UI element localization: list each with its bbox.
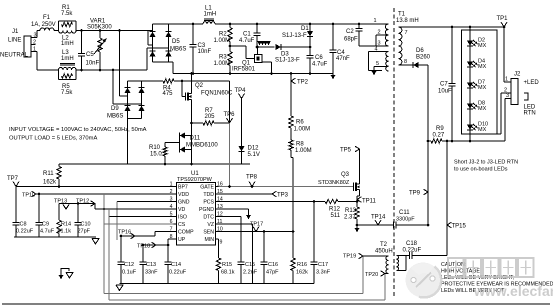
resistor R15 <box>216 258 234 284</box>
inductor L2 <box>59 31 77 48</box>
wire route B <box>109 209 385 300</box>
transformer T2 secondary <box>397 256 410 271</box>
svg-text:D5: D5 <box>172 39 180 45</box>
note input voltage <box>9 127 147 142</box>
svg-text:13.8 mH: 13.8 mH <box>396 18 419 24</box>
svg-text:0.27: 0.27 <box>433 133 445 139</box>
wire CS row <box>104 223 174 225</box>
note short J3 <box>454 160 518 173</box>
svg-text:VZ: VZ <box>207 222 214 228</box>
sense rail with R9 <box>428 126 505 143</box>
wire J2 pin3 <box>505 93 511 141</box>
svg-text:MB6S: MB6S <box>107 114 123 120</box>
svg-text:GND: GND <box>178 200 190 206</box>
capacitor C18 <box>403 241 448 259</box>
wire fuse to L2 <box>54 30 59 32</box>
testpoint TP16 <box>118 230 135 239</box>
svg-text:DTC: DTC <box>203 215 214 221</box>
svg-text:LEDs WILL BE VERY BRIGHT,: LEDs WILL BE VERY BRIGHT, <box>441 275 514 281</box>
transformer T1 core dashed line <box>393 8 395 296</box>
svg-text:R3: R3 <box>219 55 227 61</box>
svg-text:5.1V: 5.1V <box>248 152 260 158</box>
series diodes <box>257 41 271 46</box>
svg-text:R15: R15 <box>222 262 232 268</box>
svg-text:TPS92070PW: TPS92070PW <box>177 177 213 183</box>
svg-text:10nF: 10nF <box>86 61 100 67</box>
LED D8 <box>467 101 487 113</box>
svg-text:R8: R8 <box>296 142 304 148</box>
diode D3 <box>256 44 310 64</box>
svg-text:1mH: 1mH <box>204 12 217 18</box>
svg-text:Q2: Q2 <box>195 83 204 89</box>
wire GND row <box>117 202 174 241</box>
svg-text:TP2: TP2 <box>297 80 309 86</box>
svg-text:TP13: TP13 <box>54 199 67 205</box>
svg-text:PCS: PCS <box>203 200 214 206</box>
svg-text:1.00M: 1.00M <box>214 61 231 67</box>
svg-text:1: 1 <box>505 77 508 83</box>
svg-text:PGND: PGND <box>199 207 214 213</box>
svg-text:CS: CS <box>178 222 186 228</box>
wire J2 pin1 <box>504 27 511 83</box>
svg-text:R9: R9 <box>436 126 444 132</box>
svg-text:51.1k: 51.1k <box>58 229 72 235</box>
svg-text:4.7uF: 4.7uF <box>239 38 255 44</box>
svg-text:B260: B260 <box>416 55 431 61</box>
svg-text:FQN1N60C: FQN1N60C <box>201 91 233 97</box>
svg-text:to use on-board LEDs: to use on-board LEDs <box>454 167 508 173</box>
svg-text:10nF: 10nF <box>198 49 212 55</box>
testpoint TP19 <box>343 253 363 259</box>
svg-text:TP15: TP15 <box>452 224 467 230</box>
svg-text:ISO: ISO <box>178 215 187 221</box>
LED D10 <box>467 122 488 134</box>
svg-text:162k: 162k <box>296 270 308 276</box>
testpoint TP11 <box>357 197 377 205</box>
ground tie symbol <box>59 269 73 280</box>
svg-text:1mH: 1mH <box>61 41 74 47</box>
svg-text:R13: R13 <box>345 208 357 214</box>
capacitor C4 <box>330 23 351 80</box>
svg-text:TP3: TP3 <box>277 193 289 199</box>
resistor R4 <box>163 79 175 97</box>
wire VD row <box>59 202 174 210</box>
svg-text:475: 475 <box>163 91 174 97</box>
svg-text:TP7: TP7 <box>7 176 19 182</box>
svg-text:NEUTRAL: NEUTRAL <box>0 53 29 59</box>
resistor R14 <box>57 204 71 238</box>
svg-text:68.1k: 68.1k <box>221 270 235 276</box>
capacitor C13 <box>140 245 159 284</box>
svg-text:TP8: TP8 <box>246 175 258 181</box>
LED D4 <box>467 59 487 71</box>
svg-text:2.37: 2.37 <box>344 215 356 221</box>
capacitor C9 <box>36 194 55 237</box>
svg-text:C6: C6 <box>315 55 323 61</box>
connector J2 <box>511 72 521 105</box>
svg-text:S05K300: S05K300 <box>87 25 112 31</box>
testpoint TP20 <box>365 271 385 278</box>
svg-text:R12: R12 <box>329 207 341 213</box>
capacitor C12 <box>118 236 137 284</box>
svg-text:68pF: 68pF <box>344 37 358 43</box>
wire TP15 branch <box>447 141 467 256</box>
capacitor C7 <box>438 26 456 143</box>
svg-text:MX: MX <box>478 106 487 112</box>
svg-text:R16: R16 <box>297 262 307 268</box>
wire Q1 gate divider <box>229 45 250 59</box>
svg-text:D1: D1 <box>301 26 309 32</box>
T1 pin4 wire <box>369 47 389 71</box>
svg-text:S1J-13-F: S1J-13-F <box>275 58 300 64</box>
svg-text:1.00M: 1.00M <box>294 127 311 133</box>
resistor R6 <box>289 116 310 140</box>
svg-text:3300pF: 3300pF <box>396 217 415 223</box>
wire AC2 into D5 <box>112 48 169 71</box>
svg-text:TP16: TP16 <box>118 230 131 236</box>
svg-text:511: 511 <box>331 213 341 219</box>
varistor VAR1 <box>87 19 112 72</box>
svg-text:F1: F1 <box>43 15 51 21</box>
svg-text:R11: R11 <box>43 171 54 177</box>
svg-text:C11: C11 <box>399 210 410 216</box>
svg-text:D9: D9 <box>111 106 119 112</box>
T1 pin2 wire <box>376 30 389 47</box>
capacitor C6 <box>307 47 328 75</box>
T1 pin1 <box>374 18 377 24</box>
svg-text:450uH: 450uH <box>375 249 393 255</box>
svg-text:4: 4 <box>375 47 378 53</box>
capacitor C3 <box>190 23 212 75</box>
testpoint TP12 <box>76 199 95 207</box>
svg-text:C5: C5 <box>86 52 94 58</box>
testpoint TP14 <box>371 215 386 226</box>
LED D7 <box>467 80 487 92</box>
capacitor C5 <box>78 29 100 71</box>
wire COMP to TP16 <box>120 232 174 238</box>
svg-text:8: 8 <box>404 59 407 65</box>
svg-text:TP4: TP4 <box>235 88 247 94</box>
wire analog ground rail <box>14 237 99 244</box>
wire DTC to C15 <box>219 217 242 263</box>
svg-text:J1: J1 <box>12 29 19 35</box>
resistor R12 <box>325 199 357 219</box>
svg-text:S1J-13-F: S1J-13-F <box>282 33 307 39</box>
testpoint TP9 <box>409 189 428 196</box>
resistor R5 <box>59 70 77 96</box>
svg-text:SEN: SEN <box>203 230 214 236</box>
capacitor C15 <box>238 262 258 284</box>
svg-text:D6: D6 <box>416 48 424 54</box>
svg-text:GATE: GATE <box>200 185 214 191</box>
svg-text:MX: MX <box>478 43 487 49</box>
wire led string return <box>497 93 508 134</box>
led string wire <box>469 26 472 143</box>
wire SEN row <box>219 230 295 233</box>
wire Q2 source <box>190 100 193 125</box>
wire BP7 to TP7 <box>16 185 174 188</box>
op-amp U1 controller TPS92070PW <box>170 171 223 246</box>
svg-text:R6: R6 <box>296 120 304 126</box>
capacitor C2 <box>344 23 363 46</box>
wire J1 pin3 to fuse <box>31 31 40 38</box>
svg-text:4.7uF: 4.7uF <box>40 229 55 235</box>
resistor R8 <box>289 140 312 158</box>
svg-text:MIN: MIN <box>204 237 214 243</box>
transformer T2 primary <box>363 242 393 274</box>
svg-text:R2: R2 <box>219 32 227 38</box>
testpoint TP4 <box>235 88 247 99</box>
caution note <box>441 262 553 294</box>
svg-text:33nF: 33nF <box>145 270 158 276</box>
svg-text:RTN: RTN <box>524 111 536 117</box>
wire PCS row <box>219 200 326 203</box>
testpoint TP6 <box>224 112 236 123</box>
svg-text:TP17: TP17 <box>250 222 263 228</box>
wire AC1 into D5 <box>118 29 152 45</box>
sheet bottom border <box>2 303 550 305</box>
resistor R7 <box>192 108 230 125</box>
svg-text:MX: MX <box>478 64 487 70</box>
wire AC1 into D9 <box>120 31 128 97</box>
svg-text:1.00M: 1.00M <box>295 148 312 154</box>
svg-text:7.5k: 7.5k <box>61 90 73 96</box>
svg-text:0.22uF: 0.22uF <box>16 229 34 235</box>
svg-text:C14: C14 <box>171 262 181 268</box>
resistor R13 <box>344 202 359 233</box>
svg-text:TP1: TP1 <box>497 16 509 22</box>
svg-text:205: 205 <box>205 114 216 120</box>
wire D6 to sense rail <box>427 65 430 226</box>
svg-text:C17: C17 <box>318 262 328 268</box>
svg-text:C13: C13 <box>146 262 156 268</box>
testpoint TP17 <box>250 222 263 232</box>
capacitor C16 <box>261 232 280 284</box>
wire power ground rail <box>116 284 314 291</box>
jumper bracket <box>524 93 528 100</box>
connector J1 <box>0 29 37 59</box>
svg-text:IRF5801: IRF5801 <box>232 67 256 73</box>
svg-text:47nF: 47nF <box>336 56 350 62</box>
transistor Q1 <box>232 55 262 73</box>
svg-text:www.elecfans.com: www.elecfans.com <box>473 283 553 299</box>
wire J1 pin1 to L3 <box>31 52 59 71</box>
svg-text:C12: C12 <box>124 262 134 268</box>
bridge D5 <box>150 24 187 62</box>
inductor L1 <box>203 6 216 25</box>
svg-text:2: 2 <box>378 30 381 36</box>
wire PGND arrow <box>219 209 251 220</box>
svg-text:2.2nF: 2.2nF <box>243 270 258 276</box>
bridge D9 <box>107 81 145 120</box>
T1 pin3 wire <box>359 41 389 47</box>
wire J1 pin2 stub <box>31 44 36 46</box>
svg-text:MB6S: MB6S <box>170 47 186 53</box>
J2 pin2 stub <box>504 88 511 94</box>
svg-text:J2: J2 <box>514 72 521 78</box>
svg-text:MX: MX <box>478 85 487 91</box>
svg-text:1A, 250V: 1A, 250V <box>31 22 56 28</box>
testpoint TP18 <box>137 242 156 249</box>
svg-text:162k: 162k <box>43 180 57 186</box>
svg-text:UP: UP <box>178 237 186 243</box>
svg-text:TP19: TP19 <box>343 254 356 260</box>
T1 pin8 wire <box>399 59 414 65</box>
svg-text:TP9: TP9 <box>409 191 421 197</box>
svg-text:D12: D12 <box>248 146 260 152</box>
wire AC neutral <box>76 69 147 71</box>
svg-text:R10: R10 <box>149 145 161 151</box>
svg-text:3: 3 <box>378 41 381 47</box>
svg-text:HIGH VOLTAGE: HIGH VOLTAGE <box>441 269 480 275</box>
testpoint TP2 <box>290 72 309 116</box>
wire Q1 drain <box>256 46 259 55</box>
svg-text:TP14: TP14 <box>371 215 386 221</box>
testpoint TP7 <box>7 176 19 187</box>
svg-text:BP7: BP7 <box>178 185 188 191</box>
dual diode D11 <box>180 133 219 153</box>
svg-text:C9: C9 <box>42 222 49 228</box>
testpoint TP1 <box>497 16 509 28</box>
svg-text:D11: D11 <box>190 136 201 142</box>
zener D12 <box>239 99 260 165</box>
inductor L3 <box>59 50 77 70</box>
watermark <box>406 258 553 299</box>
svg-text:Short J3-2 to J3-LED RTN: Short J3-2 to J3-LED RTN <box>454 160 518 166</box>
svg-text:C2: C2 <box>346 29 354 35</box>
resistor R3 <box>214 46 233 75</box>
svg-text:T1: T1 <box>398 12 406 18</box>
diode D1 <box>282 23 313 49</box>
svg-text:T2: T2 <box>380 242 388 248</box>
wire TP6 to gate row <box>229 123 231 187</box>
capacitor C10 <box>75 204 91 238</box>
svg-text:C7: C7 <box>440 82 448 88</box>
svg-text:7.5k: 7.5k <box>61 11 73 17</box>
svg-text:COMP: COMP <box>178 230 194 236</box>
svg-text:15.0: 15.0 <box>150 152 162 158</box>
wire Q1 source <box>262 62 273 75</box>
svg-text:TP11: TP11 <box>362 199 377 205</box>
svg-text:5: 5 <box>376 61 379 67</box>
svg-text:9: 9 <box>220 240 223 246</box>
svg-text:1.00M: 1.00M <box>214 38 231 44</box>
svg-text:4.7uF: 4.7uF <box>312 62 328 68</box>
svg-text:MMBD6100: MMBD6100 <box>186 143 218 149</box>
svg-text:VD: VD <box>178 207 185 213</box>
svg-text:47pF: 47pF <box>266 270 279 276</box>
transistor Q2 <box>186 83 234 101</box>
svg-text:TDD: TDD <box>203 192 214 198</box>
wire R8 to R16 branch <box>291 158 293 259</box>
wire route A <box>104 194 363 294</box>
wire D9 top rail to R4 <box>142 80 164 82</box>
wire Q2 drain <box>190 72 193 93</box>
svg-text:C1: C1 <box>243 32 251 38</box>
svg-text:C16: C16 <box>268 262 278 268</box>
wire VZ row <box>219 224 253 284</box>
testpoint TP8 <box>246 175 258 187</box>
wire AC line top <box>76 30 153 32</box>
svg-text:+LED: +LED <box>524 80 540 86</box>
wire top rail <box>153 23 389 25</box>
svg-text:10uF: 10uF <box>438 89 452 95</box>
resistor R2 <box>214 23 233 46</box>
label LED RTN <box>524 105 536 117</box>
T1 pin5 wire <box>372 61 389 76</box>
wire MIN to R15 <box>216 239 219 258</box>
svg-text:MX: MX <box>478 127 487 133</box>
diode D6 <box>413 48 431 68</box>
wire ISO row <box>109 216 174 218</box>
LED D2 <box>467 38 487 50</box>
led module box <box>462 30 498 134</box>
svg-text:C8: C8 <box>20 222 27 228</box>
capacitor C17 <box>311 202 331 284</box>
wire D9 bottom to primary rail <box>127 119 129 165</box>
resistor R16 <box>291 258 308 284</box>
wire GATE row <box>219 185 354 188</box>
wire D5 minus to rail <box>169 62 174 74</box>
svg-text:1mH: 1mH <box>61 56 74 62</box>
resistor R1 <box>59 5 77 31</box>
resistor R10 <box>149 143 180 165</box>
svg-text:7: 7 <box>405 30 408 36</box>
capacitor C11 <box>357 210 428 229</box>
svg-text:C18: C18 <box>406 241 418 247</box>
svg-text:INPUT VOLTAGE = 100VAC to 240V: INPUT VOLTAGE = 100VAC to 240VAC, 50Hz, … <box>9 127 147 133</box>
svg-text:OUTPUT LOAD = 5 LEDs, 370mA: OUTPUT LOAD = 5 LEDs, 370mA <box>9 136 97 142</box>
wire VDD to TP10 <box>36 193 174 196</box>
label +LED <box>524 80 540 86</box>
capacitor C1 <box>239 23 261 47</box>
wire UP to TP18 <box>142 239 174 246</box>
svg-text:TP5: TP5 <box>340 148 352 154</box>
wire bus return rail <box>173 73 333 75</box>
transformer T1 primary <box>385 12 418 72</box>
svg-text:3.3nF: 3.3nF <box>316 270 331 276</box>
svg-text:0.22uF: 0.22uF <box>169 270 187 276</box>
testpoint TP13 <box>54 199 69 210</box>
svg-text:3: 3 <box>506 93 509 99</box>
svg-text:TP6: TP6 <box>224 112 236 118</box>
T1 pin7 wire <box>399 27 505 36</box>
wire primary return rail <box>59 163 250 166</box>
svg-text:Q3: Q3 <box>341 172 350 178</box>
fuse F1 <box>31 15 56 31</box>
capacitor C8 <box>13 187 34 238</box>
svg-text:0.1uF: 0.1uF <box>122 270 137 276</box>
svg-text:C10: C10 <box>81 222 91 228</box>
svg-text:1: 1 <box>374 18 377 24</box>
wire R4 to Q2 gate <box>174 80 230 97</box>
capacitor C14 <box>165 245 187 284</box>
svg-text:27pF: 27pF <box>78 229 91 235</box>
svg-text:VDD: VDD <box>178 192 189 198</box>
wire AC2 into D9 <box>113 70 142 104</box>
svg-text:R14: R14 <box>61 222 71 228</box>
svg-text:0.22uF: 0.22uF <box>403 248 422 254</box>
transistor Q3 <box>318 172 360 191</box>
resistor R11 <box>43 164 61 187</box>
wire rail to TP6 <box>229 81 231 123</box>
wire Q3 source <box>356 190 360 203</box>
svg-text:TP20: TP20 <box>365 272 378 278</box>
svg-text:C15: C15 <box>245 262 255 268</box>
testpoint TP10 <box>22 191 36 198</box>
transformer T1 secondary <box>399 27 402 65</box>
svg-text:STD3NK80Z: STD3NK80Z <box>318 180 350 186</box>
